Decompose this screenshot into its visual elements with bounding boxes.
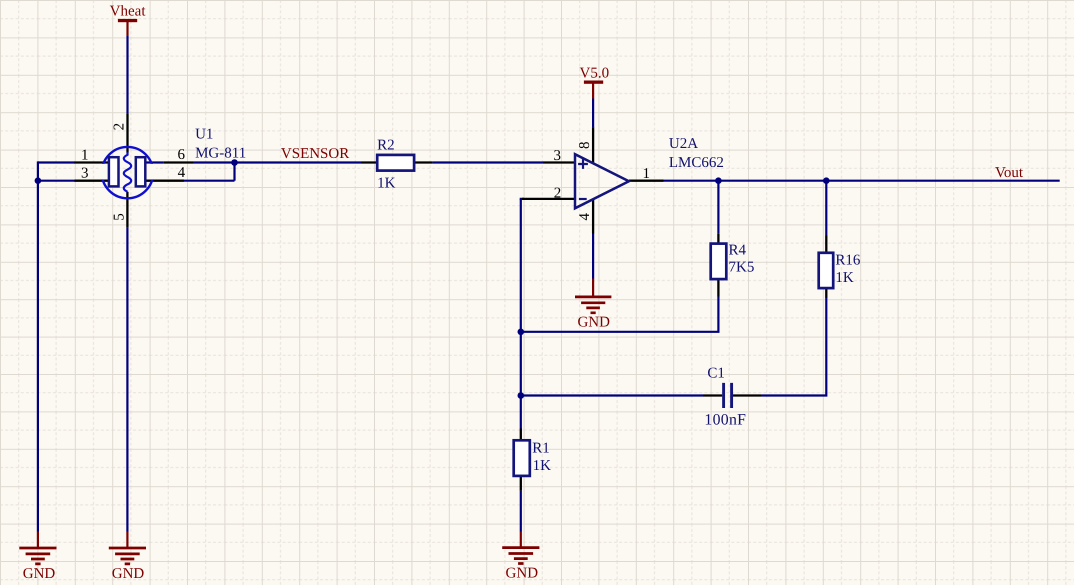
wire R16 bottom to C1 right plate — [761, 298, 826, 396]
pin 6 of U1 (stub) — [145, 161, 193, 163]
svg-text:2: 2 — [554, 186, 562, 202]
junction dot feedback C1 — [518, 392, 525, 399]
svg-text:U2A: U2A — [669, 136, 698, 152]
wire sensor row B left (pin 3 to left rail) — [38, 180, 75, 182]
wire net VSENSOR (pin 6 to R2) — [193, 161, 361, 163]
svg-text:Vheat: Vheat — [110, 4, 147, 20]
pin stubs of C1 — [703, 394, 761, 396]
pin number 8 of U2A (rotated) — [577, 141, 593, 149]
svg-text:8: 8 — [577, 141, 593, 149]
wire output row down to R4 — [717, 181, 719, 234]
svg-text:3: 3 — [81, 166, 89, 182]
pin number 2 of U1 (rotated) — [112, 123, 128, 131]
pin number 4 of U1 — [178, 165, 186, 181]
pin 5 of U1 (stub) — [126, 192, 128, 228]
pin 3 of U1 (stub) — [75, 180, 111, 182]
wire output row down to R16 — [825, 181, 827, 236]
net label GND left rail — [23, 566, 56, 582]
pin number 1 of U1 — [81, 147, 89, 163]
designator R4 — [729, 242, 747, 258]
wire feedback vertical rail — [520, 199, 522, 429]
pin 8 of U2A (stub) — [592, 127, 594, 163]
svg-text:MG-811: MG-811 — [195, 145, 246, 161]
resistor R4 body — [711, 244, 727, 280]
svg-text:R16: R16 — [835, 253, 861, 269]
svg-text:GND: GND — [506, 565, 539, 581]
wire op-amp pin 4 to GND — [592, 234, 594, 279]
net label GND sensor heater — [112, 566, 145, 582]
svg-text:4: 4 — [178, 165, 186, 181]
power port V5.0 — [584, 81, 603, 99]
svg-text:4: 4 — [577, 213, 593, 221]
svg-text:1K: 1K — [533, 458, 552, 474]
svg-text:1K: 1K — [377, 175, 396, 191]
pin 1 of U1 (stub) — [75, 161, 111, 163]
svg-text:C1: C1 — [707, 366, 725, 382]
pin 1 of U2A (stub) — [629, 180, 664, 182]
resistor R16 body — [819, 253, 834, 288]
pin stubs of R4 — [717, 234, 719, 297]
sensor right electrode plate — [136, 157, 146, 186]
ground symbol op-amp pin 4 — [575, 279, 611, 313]
wire op-amp pin 8 to V5.0 — [592, 99, 594, 128]
pin number 6 of U1 — [178, 147, 186, 163]
wire R1 bottom to GND — [520, 491, 522, 532]
pin stubs of R16 — [825, 236, 827, 299]
wire vertical joiner pin4 row to pin6 row — [233, 163, 235, 181]
designator U2A — [669, 136, 698, 152]
svg-text:R4: R4 — [729, 242, 747, 258]
resistor R2 body — [377, 155, 414, 171]
pin number 4 of U2A (rotated) — [577, 213, 593, 221]
net label Vheat — [110, 4, 147, 20]
wire C1 left plate to feedback rail — [521, 394, 703, 396]
junction dot output R16 — [823, 177, 830, 184]
ground symbol sensor heater — [109, 532, 146, 564]
net label Vout — [995, 165, 1024, 181]
pin 4 of U1 (stub) — [145, 180, 184, 182]
svg-text:U1: U1 — [195, 127, 213, 143]
value LMC662 — [669, 155, 724, 171]
sensor left electrode plate — [109, 157, 119, 186]
ground symbol left rail — [19, 532, 56, 564]
value MG-811 — [195, 145, 246, 161]
junction dot output R4 — [715, 177, 722, 184]
pin number 3 of U1 — [81, 166, 89, 182]
sensor side notches — [99, 164, 156, 180]
svg-text:3: 3 — [554, 148, 562, 164]
junction dot left rail row B — [35, 177, 42, 184]
wire R4 bottom to feedback rail — [521, 297, 719, 332]
pin number 5 of U1 (rotated) — [112, 213, 128, 221]
designator R2 — [377, 137, 395, 153]
gas sensor U1 MG-811 body circle — [102, 147, 153, 198]
value 100nF of C1 — [704, 412, 746, 429]
wire op-amp output to Vout — [664, 180, 1060, 182]
svg-text:VSENSOR: VSENSOR — [281, 146, 349, 162]
svg-text:V5.0: V5.0 — [580, 66, 610, 82]
svg-text:GND: GND — [112, 566, 145, 582]
value 1K of R1 — [533, 458, 552, 474]
wire Vheat vertical to sensor pin 2 — [126, 36, 128, 114]
wire feedback corner to -input — [521, 198, 524, 200]
pin number 1 of U2A — [643, 166, 651, 182]
op-amp U2A triangle — [575, 154, 629, 208]
pin 2 of U2A (stub) — [522, 198, 575, 200]
designator R1 — [532, 441, 550, 457]
ground symbol R1 — [502, 532, 539, 564]
value 1K of R16 — [835, 270, 854, 286]
net label VSENSOR — [281, 146, 349, 162]
svg-text:100nF: 100nF — [704, 412, 746, 429]
pin number 3 of U2A — [554, 148, 562, 164]
value 7K5 of R4 — [729, 260, 755, 276]
svg-text:GND: GND — [577, 315, 610, 331]
pin stubs of R1 — [520, 429, 522, 491]
designator R16 — [835, 253, 861, 269]
power port Vheat — [118, 19, 137, 36]
svg-text:1K: 1K — [835, 270, 854, 286]
pin 3 of U2A (stub) — [543, 161, 575, 163]
svg-text:6: 6 — [178, 147, 186, 163]
wire sensor pin 5 down to GND — [126, 228, 128, 532]
wire left rail vertical to GND — [37, 161, 39, 531]
svg-text:2: 2 — [112, 123, 128, 131]
svg-text:GND: GND — [23, 566, 56, 582]
pin stubs of R2 — [361, 161, 432, 163]
designator C1 — [707, 366, 725, 382]
net label GND op-amp — [577, 315, 610, 331]
op-amp minus mark — [579, 198, 587, 200]
value 1K of R2 — [377, 175, 396, 191]
op-amp plus mark — [578, 159, 588, 169]
svg-text:1: 1 — [81, 147, 89, 163]
wire pin 4 to vertical joiner — [184, 180, 235, 182]
svg-text:5: 5 — [112, 213, 128, 221]
wire R2 to op-amp +input — [432, 161, 543, 163]
pin 2 of U1 (stub) — [126, 114, 128, 153]
pin 4 of U2A (stub) — [592, 199, 594, 233]
svg-text:7K5: 7K5 — [729, 260, 755, 276]
sensor heater squiggle — [124, 152, 131, 192]
junction dot VSENSOR node — [231, 159, 238, 166]
net label GND R1 — [506, 565, 539, 581]
svg-text:R1: R1 — [532, 441, 550, 457]
designator U1 — [195, 127, 213, 143]
pin number 2 of U2A — [554, 186, 562, 202]
resistor R1 body — [514, 440, 530, 476]
wire sensor row A left (pin 1 to left rail) — [38, 161, 75, 163]
svg-text:1: 1 — [643, 166, 651, 182]
svg-text:LMC662: LMC662 — [669, 155, 724, 171]
svg-text:Vout: Vout — [995, 165, 1024, 181]
capacitor C1 plates — [724, 383, 732, 408]
svg-text:R2: R2 — [377, 137, 395, 153]
junction dot feedback R4 — [518, 329, 525, 336]
net label V5.0 — [580, 66, 610, 82]
